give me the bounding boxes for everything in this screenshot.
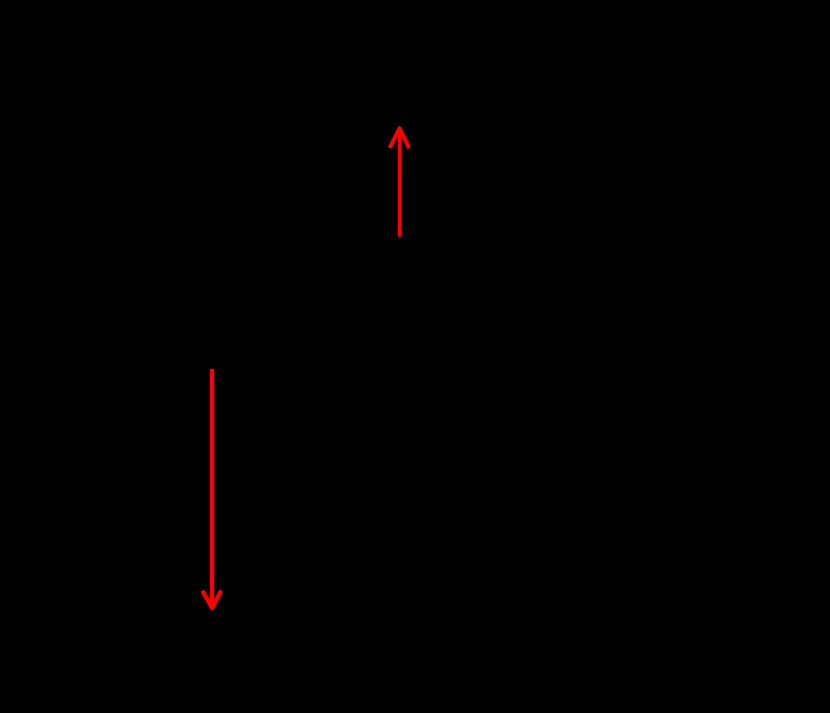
arrowhead of I2 [202, 591, 221, 609]
wire shaft of arrow I2 [210, 369, 214, 606]
arrowhead of I1 [390, 128, 410, 148]
wire shaft of arrow I1 [398, 131, 401, 237]
current arrow I1 (upward, red) [390, 128, 410, 237]
current arrow I2 (downward, red) [202, 369, 221, 608]
